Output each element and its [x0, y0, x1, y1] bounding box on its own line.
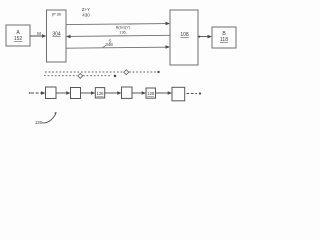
svg-text:128: 128	[147, 91, 155, 96]
upper dashed wire	[45, 70, 160, 75]
svg-text:Z+Y: Z+Y	[82, 7, 90, 12]
svg-text:126: 126	[97, 91, 105, 96]
svg-text:118: 118	[220, 37, 228, 43]
chain box 6	[172, 87, 185, 101]
wire S (348) from 304 to 108	[66, 39, 170, 49]
chain box 4	[122, 87, 133, 98]
block 108	[170, 10, 198, 65]
block 304	[47, 10, 67, 62]
wire from 108 to B	[198, 35, 212, 39]
label 130 with leader arrow	[35, 112, 57, 125]
wire chain 1-2	[56, 91, 71, 94]
wire Z+Y (430) from 304 to 108	[66, 7, 170, 25]
chain box 1	[46, 87, 57, 99]
svg-text:348: 348	[105, 42, 113, 47]
svg-text:152: 152	[14, 36, 23, 42]
lower dashed wire	[44, 73, 116, 78]
wire dashed lead-out of chain	[187, 92, 202, 94]
svg-text:(P 3b: (P 3b	[52, 12, 62, 17]
wire dashed lead-in to chain	[29, 91, 46, 95]
svg-text:108: 108	[180, 32, 189, 38]
wire chain 3-4	[105, 91, 122, 94]
chain box 2	[71, 88, 81, 99]
svg-text:130: 130	[35, 120, 43, 125]
svg-text:304: 304	[52, 32, 61, 38]
svg-text:136,: 136,	[119, 30, 127, 35]
chain box 3 (126)	[95, 88, 104, 98]
wire M arrow from A to 304	[30, 31, 47, 38]
chain box 5 (128)	[146, 88, 156, 98]
svg-text:M: M	[37, 31, 41, 36]
wire chain 2-3	[81, 91, 96, 94]
block B	[212, 27, 236, 48]
wire B(S/s(Y) (136) from 108 to 304	[66, 26, 170, 39]
block A	[6, 25, 30, 46]
wire chain 4-5	[132, 91, 146, 94]
svg-text:430: 430	[82, 13, 90, 18]
wire chain 5-6	[156, 91, 173, 94]
